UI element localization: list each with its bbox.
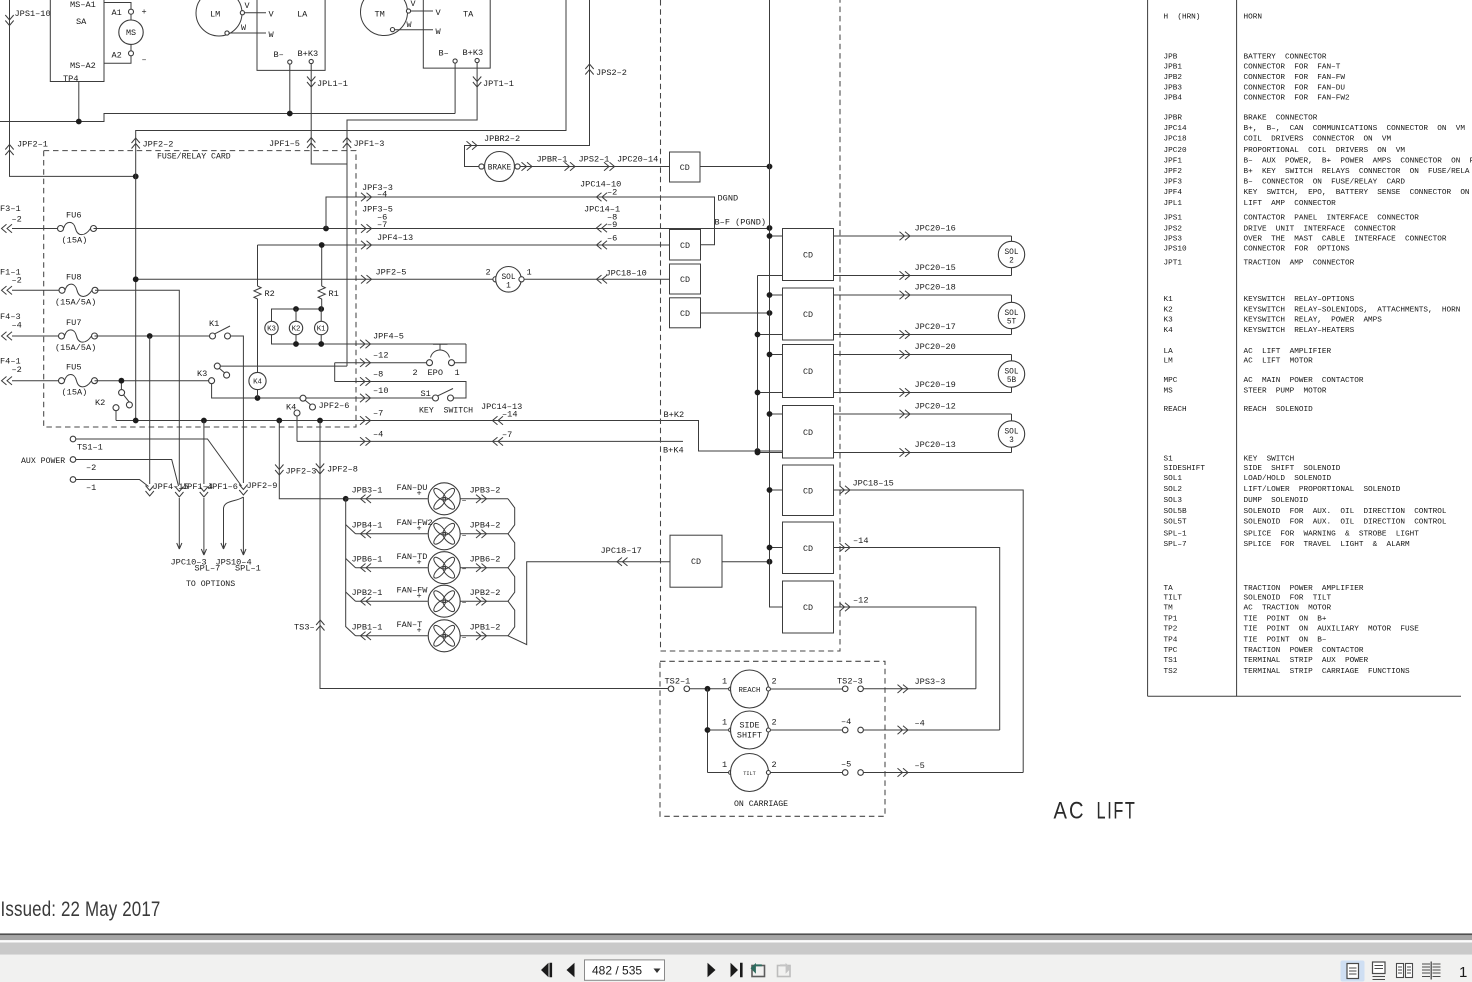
svg-text:B+, B–, CAN COMMUNICATIONS: B+, B–, CAN COMMUNICATIONS CONNECTOR ON … [1244, 125, 1466, 133]
terminal brake left [479, 164, 484, 169]
proportional coil driver box 3 [783, 345, 834, 398]
svg-text:LM: LM [1164, 358, 1174, 366]
connector JPB3-1 [361, 495, 372, 503]
terminal SS pin2 [766, 728, 770, 732]
wire bus to box 6 [770, 547, 783, 549]
reach solenoid REACH [731, 670, 769, 708]
vehicle manager dashed outline [661, 0, 841, 651]
svg-text:1: 1 [722, 677, 727, 687]
connector JPC14-1 [597, 224, 608, 232]
svg-text:LOAD/HOLD SOLENOID: LOAD/HOLD SOLENOID [1244, 475, 1332, 483]
toolbar first page button [541, 963, 552, 977]
svg-text:JPF1: JPF1 [1164, 157, 1183, 165]
connector JPC14-13 [493, 416, 504, 424]
svg-text:V: V [245, 1, 250, 11]
svg-text:FUSE/RELAY CARD: FUSE/RELAY CARD [157, 152, 231, 162]
svg-text:TP4: TP4 [63, 74, 78, 84]
wire LM W [229, 32, 266, 34]
svg-text:SPL–7: SPL–7 [1164, 541, 1187, 549]
relay coil K1 [315, 321, 328, 334]
svg-text:–2: –2 [12, 365, 22, 375]
svg-text:–4: –4 [377, 190, 387, 200]
svg-text:JPF2–2: JPF2–2 [143, 140, 174, 150]
wire EPO pin1 to JPF4-5 [454, 344, 466, 363]
junction sideshift feed [705, 727, 711, 733]
svg-text:LA: LA [297, 10, 308, 20]
svg-text:W: W [436, 27, 442, 37]
wire fan chain TD-FW [508, 568, 515, 602]
svg-text:–8: –8 [373, 370, 383, 380]
svg-text:K2: K2 [95, 398, 105, 408]
connector JPF2-6 pin -8 [360, 377, 371, 385]
svg-text:K3: K3 [1164, 317, 1174, 325]
svg-text:–: – [462, 530, 467, 540]
tilt solenoid TILT [731, 754, 769, 792]
svg-text:JPT1–1: JPT1–1 [483, 79, 514, 89]
svg-text:–6: –6 [607, 234, 617, 244]
fuse relay card outline [44, 151, 356, 427]
svg-text:–7: –7 [373, 409, 383, 419]
junction fan bus top [343, 496, 349, 502]
junction CD4 bus [767, 310, 773, 316]
svg-text:JPT1: JPT1 [1164, 260, 1183, 268]
svg-text:K2: K2 [1164, 306, 1174, 314]
svg-text:JPB2–2: JPB2–2 [470, 588, 501, 598]
wire to FU6 [12, 228, 58, 230]
svg-text:K1: K1 [209, 319, 219, 329]
svg-text:SOL2: SOL2 [1164, 486, 1183, 494]
svg-text:TS3–: TS3– [294, 623, 315, 633]
wire bus to box 2 top pin [770, 294, 783, 296]
lift motor LM [196, 0, 242, 36]
svg-text:–1: –1 [86, 483, 96, 493]
wire B-F PGND bus [770, 0, 783, 607]
terminal TS2-1 b [684, 686, 690, 692]
connector JPC18-17 [617, 558, 628, 566]
proportional coil driver box 4 [783, 406, 834, 459]
wire AUX -2 [76, 460, 179, 487]
connector JPF4-15 [146, 486, 154, 497]
svg-text:LIFT: LIFT [1097, 798, 1137, 825]
terminal -5 b [858, 770, 864, 776]
resistor R1 [318, 286, 339, 299]
connector JPF1-3 [343, 138, 351, 149]
svg-text:LIFT AMP CONNECTOR: LIFT AMP CONNECTOR [1244, 200, 1337, 208]
steering contactor panel SA box [50, 0, 104, 84]
terminal TM W [390, 28, 394, 32]
junction JPF2-5 tap [133, 276, 139, 282]
svg-text:MS–A1: MS–A1 [70, 0, 96, 10]
svg-text:TRACTION POWER CONTACTOR: TRACTION POWER CONTACTOR [1244, 647, 1364, 655]
svg-text:S1: S1 [1164, 455, 1174, 463]
svg-text:FU7: FU7 [66, 318, 81, 328]
svg-text:JPS1–10: JPS1–10 [15, 9, 51, 19]
wire fan FW2 left [356, 533, 428, 535]
svg-text:CD: CD [803, 310, 813, 320]
connector JPC20-18 [900, 291, 911, 299]
junction K4 coil on S1 rail [255, 395, 261, 401]
solenoid SOL1 [496, 267, 522, 293]
wire JPS2-2 to brake [465, 0, 590, 167]
connector JPC18-15 [840, 486, 851, 494]
svg-text:–2: –2 [12, 215, 22, 225]
svg-text:CD: CD [803, 251, 813, 261]
junction JPF2-3 drop [276, 418, 282, 424]
connector JPS1-10 [5, 15, 13, 26]
svg-text:H (HRN): H (HRN) [1164, 13, 1201, 21]
svg-text:JPC20: JPC20 [1164, 147, 1187, 155]
wire JPF1-6 drop [203, 421, 205, 485]
svg-text:LA: LA [1164, 348, 1174, 356]
junction bus box 4 top [767, 411, 773, 417]
wire JPC18-17 CD to bus [722, 561, 770, 563]
wire tilt in [708, 772, 729, 774]
svg-text:TRACTION POWER AMPLIFIER: TRACTION POWER AMPLIFIER [1244, 585, 1364, 593]
wire K3 to JPF1-3 [220, 365, 347, 367]
wire B+K2 left bus [758, 276, 783, 452]
connector JPC20-15 [900, 271, 911, 279]
connector JPB1-2 [476, 632, 487, 640]
connector JPF2-6 pin -7 [360, 416, 371, 424]
wire fan T right [460, 635, 508, 637]
svg-text:MS–A2: MS–A2 [70, 61, 96, 71]
wire K2 to JPF2-6 rail [116, 420, 136, 422]
connector JPL1-1 [307, 77, 315, 88]
junction left bus box 4 [755, 450, 761, 456]
svg-text:2: 2 [772, 677, 777, 687]
svg-text:MPC: MPC [1164, 377, 1178, 385]
svg-text:JPC18: JPC18 [1164, 136, 1187, 144]
terminal B+K3 TA [475, 58, 479, 62]
svg-text:1: 1 [506, 282, 511, 290]
svg-text:JPB2: JPB2 [1164, 74, 1183, 82]
svg-text:CONNECTOR FOR FAN–T: CONNECTOR FOR FAN–T [1244, 64, 1341, 72]
connector JPS2-1 [565, 162, 576, 170]
toolbar last page button [731, 963, 743, 977]
wire to FU5 [12, 380, 59, 382]
svg-text:LIFT/LOWER PROPORTIONAL SOLE: LIFT/LOWER PROPORTIONAL SOLENOID [1244, 486, 1401, 494]
svg-text:JPBR2–2: JPBR2–2 [484, 134, 520, 144]
coil driver box 5 [783, 465, 834, 516]
wire bus to box 3 top pin [770, 354, 783, 356]
svg-text:B+K3: B+K3 [463, 48, 484, 58]
terminal TS2-3 b [858, 686, 864, 692]
wire fan bus branch TD [346, 559, 356, 568]
fuse FU5 15A [59, 363, 98, 398]
wire SOL5T bottom link [1011, 329, 1013, 335]
side shift solenoid SIDESHIFT [731, 711, 769, 749]
connector JPF2-5 [361, 275, 372, 283]
toolbar next view button disabled [778, 965, 791, 977]
svg-text:Issued: 22 May 2017: Issued: 22 May 2017 [1, 898, 161, 921]
terminal -4 a [842, 727, 848, 733]
arrow to JPC10-3 [177, 498, 182, 549]
wire JPF4-13 rail [258, 244, 670, 246]
wire fan chain DU-FW2 [508, 499, 515, 534]
svg-text:MS: MS [126, 28, 136, 38]
relay contact K2 [95, 383, 132, 420]
svg-text:CONTACTOR PANEL INTERFACE C: CONTACTOR PANEL INTERFACE CONNECTOR [1244, 214, 1420, 222]
svg-text:SPLICE FOR TRAVEL LIGHT &: SPLICE FOR TRAVEL LIGHT & ALARM [1244, 541, 1410, 549]
svg-text:CD: CD [803, 486, 813, 496]
svg-text:JPC18–10: JPC18–10 [606, 269, 647, 279]
relay contact K1 [209, 319, 231, 339]
wire fan bus branch FW [346, 592, 356, 601]
svg-text:FU6: FU6 [66, 211, 81, 221]
wire SOL3 bottom link [1011, 447, 1013, 452]
wire B- LA down [289, 64, 291, 113]
solenoid SOL3 [998, 421, 1024, 447]
wire K1 coil stems [320, 309, 322, 344]
wire FU6 rail B-F [94, 228, 770, 230]
svg-text:AC: AC [1054, 798, 1086, 825]
svg-text:REACH SOLENOID: REACH SOLENOID [1244, 406, 1314, 414]
wire left bus to box 3 low pin [758, 392, 783, 394]
toolbar page number field [585, 960, 665, 980]
svg-text:B–: B– [439, 49, 449, 59]
terminal TS1-1 [70, 436, 76, 442]
terminal -5 a [842, 770, 848, 776]
junction FU6 JPF3-3 tap [323, 226, 329, 232]
svg-text:TS2–1: TS2–1 [665, 677, 691, 687]
wire fan bus branch FW2 [346, 525, 356, 534]
legend table borders [1148, 0, 1461, 696]
svg-text:SOL5T: SOL5T [1164, 518, 1187, 526]
connector JPF4-13 [361, 241, 372, 249]
svg-text:2: 2 [486, 268, 491, 278]
wire left bus to box 2 low pin [758, 334, 783, 336]
svg-text:CONNECTOR FOR OPTIONS: CONNECTOR FOR OPTIONS [1244, 246, 1350, 254]
wire SA to A1 [104, 3, 131, 10]
svg-text:TP4: TP4 [1164, 636, 1178, 644]
svg-text:3: 3 [1009, 437, 1014, 445]
connector JPF2-8 [316, 464, 324, 475]
solenoid SOL5T [998, 302, 1024, 328]
connector JPF1-5 [307, 138, 315, 149]
svg-text:EPO: EPO [428, 368, 443, 378]
terminal SOL1 pin 1 [519, 277, 524, 282]
connector JPT1-1 [473, 77, 481, 88]
connector JPB4-2 [476, 530, 487, 538]
svg-text:JPF2–9: JPF2–9 [247, 481, 278, 491]
svg-text:STEER PUMP MOTOR: STEER PUMP MOTOR [1244, 388, 1327, 396]
svg-text:SOL1: SOL1 [1164, 475, 1183, 483]
wire JPF2-8 drop to carriage [320, 421, 668, 689]
svg-text:JPL1–1: JPL1–1 [317, 79, 348, 89]
key switch S1 [419, 389, 473, 416]
svg-text:–5: –5 [915, 761, 925, 771]
wire output JPC20-18 [834, 294, 1012, 296]
wire R1 bottom link [321, 299, 323, 309]
wire FU5 to K3 [95, 380, 209, 382]
svg-text:JPS10: JPS10 [1164, 246, 1187, 254]
connector JPF2-6 pin -10 [360, 394, 371, 402]
wire fan TD left [356, 567, 428, 569]
svg-text:JPF4–13: JPF4–13 [377, 233, 413, 243]
coil driver box 6 [783, 522, 834, 574]
brake coil BRAKE [485, 152, 515, 182]
wire REACH to TS2-3 [770, 688, 842, 690]
junction bus box 3 top [767, 352, 773, 358]
arrow to SPL-1 [241, 497, 246, 555]
connector JPF4-3 [2, 332, 13, 340]
wire bus to box 1 top pin [770, 235, 783, 237]
junction B-F bus [767, 225, 773, 231]
wire B+K3 LA to JPF1-5 [311, 64, 347, 164]
svg-text:(15A): (15A) [62, 388, 88, 398]
connector JPF2-6 pin -12 [360, 359, 371, 367]
wire JPF2-6 B+K2 rail [136, 421, 783, 452]
coil driver CD3 [670, 264, 701, 294]
connector pin -14 [840, 543, 851, 551]
svg-text:TS2: TS2 [1164, 668, 1178, 676]
svg-text:2: 2 [413, 368, 418, 378]
svg-text:–: – [462, 564, 467, 574]
wire K2 coil stems [295, 309, 297, 344]
svg-text:JPF1–5: JPF1–5 [269, 139, 300, 149]
junction JPC18-17 bus [767, 559, 773, 565]
layout continuous button [1373, 962, 1386, 980]
svg-text:JPB3–1: JPB3–1 [352, 486, 383, 496]
svg-text:–7: –7 [502, 430, 512, 440]
junction FU7 drop [147, 333, 153, 339]
wire fan chain to JPC18-17 [508, 562, 670, 645]
svg-text:FAN–TD: FAN–TD [397, 552, 428, 562]
svg-text:TO OPTIONS: TO OPTIONS [186, 580, 235, 589]
wire JPS1-10 riser [10, 0, 136, 176]
relay coil K4 [249, 372, 266, 389]
wire SOL5T top link [1011, 295, 1013, 302]
svg-text:JPB1: JPB1 [1164, 64, 1183, 72]
wire JPF2-3 drop [279, 421, 345, 499]
wire CD4 to bus [701, 312, 770, 314]
svg-text:CD: CD [680, 309, 690, 319]
wire output JPC20-16 [834, 235, 1012, 237]
svg-text:A1: A1 [112, 8, 122, 18]
svg-text:JPB6–1: JPB6–1 [352, 554, 383, 564]
svg-text:K3: K3 [197, 369, 207, 379]
on carriage dashed outline [660, 661, 885, 816]
connector JPB4-1 [361, 530, 372, 538]
svg-text:TPC: TPC [1164, 647, 1178, 655]
svg-text:FAN–FW2: FAN–FW2 [397, 518, 433, 528]
svg-text:F3–1: F3–1 [0, 204, 21, 214]
wire carriage feed bus [707, 689, 709, 773]
wire B+K3 TA to JPF1-3 [347, 63, 477, 367]
connector TS3-8 [316, 620, 324, 631]
svg-text:TM: TM [1164, 605, 1174, 613]
wire K4 to -4 rail [296, 416, 298, 441]
svg-text:B– AUX POWER, B+ POWER AM: B– AUX POWER, B+ POWER AMPS CONNECTOR ON… [1244, 157, 1472, 165]
connector JPS3-3 [898, 685, 909, 693]
junction FU5 K2 tap [119, 378, 125, 384]
fan motor FAN-TD [428, 552, 460, 584]
svg-text:TP1: TP1 [1164, 615, 1178, 623]
connector JPBR2-2 [467, 141, 478, 149]
wire sideshift in [708, 729, 729, 731]
junction K2 coil bottom [293, 341, 299, 347]
svg-text:B–F (PGND): B–F (PGND) [715, 218, 767, 228]
wire output JPC18-15 [834, 490, 1024, 773]
lift amplifier LA box [257, 0, 325, 70]
junction left bus box 3 [755, 390, 761, 396]
svg-text:JPC18–17: JPC18–17 [601, 546, 642, 556]
wire A2 to SA box [104, 56, 131, 63]
svg-text:482 / 535: 482 / 535 [592, 964, 642, 978]
svg-text:B+K2: B+K2 [664, 410, 685, 420]
proportional coil driver box 2 [783, 288, 834, 340]
toolbar previous view button [752, 965, 765, 977]
svg-text:1: 1 [722, 760, 727, 770]
svg-text:TIE POINT ON AUXILIARY MOT: TIE POINT ON AUXILIARY MOTOR FUSE [1244, 626, 1420, 634]
svg-text:B– CONNECTOR ON FUSE/RELAY: B– CONNECTOR ON FUSE/RELAY CARD [1244, 179, 1406, 187]
junction left bus box 2 [755, 332, 761, 338]
svg-text:KEYSWITCH RELAY–SOLENIODS, A: KEYSWITCH RELAY–SOLENIODS, ATTACHMENTS, … [1244, 306, 1461, 314]
wire bus to box 4 top pin [770, 413, 783, 415]
coil driver CD4 [670, 298, 701, 328]
wire output JPC20-17 [834, 334, 1012, 336]
svg-text:+: + [417, 524, 422, 534]
fuse FU7 15A/5A [55, 318, 98, 353]
terminal REACH pin1 [729, 687, 733, 691]
wire SOL5B bottom link [1011, 387, 1013, 392]
svg-text:JPF2–8: JPF2–8 [327, 465, 358, 475]
svg-text:–12: –12 [373, 351, 388, 361]
svg-text:BRAKE CONNECTOR: BRAKE CONNECTOR [1244, 115, 1318, 123]
svg-text:JPBR–1: JPBR–1 [537, 155, 568, 165]
svg-text:DUMP SOLENOID: DUMP SOLENOID [1244, 497, 1309, 505]
svg-text:TILT: TILT [743, 771, 755, 777]
svg-text:–14: –14 [853, 536, 868, 546]
svg-text:TERMINAL STRIP CARRIAGE FUN: TERMINAL STRIP CARRIAGE FUNCTIONS [1244, 668, 1410, 676]
junction JPF1-6 drop [201, 418, 207, 424]
svg-text:5B: 5B [1007, 377, 1017, 385]
wire output -14 [834, 548, 1000, 731]
wire CD1 to bus [700, 166, 770, 168]
svg-text:TERMINAL STRIP AUX POWER: TERMINAL STRIP AUX POWER [1244, 657, 1369, 665]
svg-text:SPLICE FOR WARNING & STROB: SPLICE FOR WARNING & STROBE LIGHT [1244, 530, 1420, 538]
svg-text:SIDESHIFT: SIDESHIFT [1164, 465, 1206, 473]
svg-text:+: + [417, 591, 422, 601]
svg-text:PROPORTIONAL COIL DRIVERS O: PROPORTIONAL COIL DRIVERS ON VM [1244, 147, 1406, 155]
svg-text:COIL DRIVERS CONNECTOR ON: COIL DRIVERS CONNECTOR ON VM [1244, 136, 1392, 144]
svg-text:CONNECTOR FOR FAN–DU: CONNECTOR FOR FAN–DU [1244, 84, 1346, 92]
relay coil K3 [265, 321, 278, 334]
svg-text:JPF4: JPF4 [1164, 189, 1183, 197]
terminal TM V [406, 9, 410, 13]
connector JPB6-1 [361, 564, 372, 572]
junction bus box 1 top [767, 233, 773, 239]
layout two page button [1397, 964, 1413, 978]
solenoid SOL2 [998, 241, 1024, 267]
connector JPB3-2 [476, 495, 487, 503]
connector JPC18-10 [597, 275, 608, 283]
junction K2 coil top [293, 306, 299, 312]
svg-text:S1: S1 [421, 389, 431, 399]
connector JPC20-20 [900, 350, 911, 358]
wire SOL1 to CD3 [524, 278, 669, 280]
fan motor FAN-FW [428, 585, 460, 617]
terminal brake right [515, 164, 520, 169]
connector JPF2-3 [275, 465, 283, 476]
svg-text:JPC20–18: JPC20–18 [915, 283, 956, 293]
wire JPF3-3 DGND rail [326, 197, 715, 245]
svg-text:CD: CD [803, 544, 813, 554]
connector JPB2-1 [361, 597, 372, 605]
svg-text:V: V [436, 8, 442, 18]
fan motor FAN-DU [428, 483, 460, 515]
svg-text:K3: K3 [267, 326, 276, 334]
